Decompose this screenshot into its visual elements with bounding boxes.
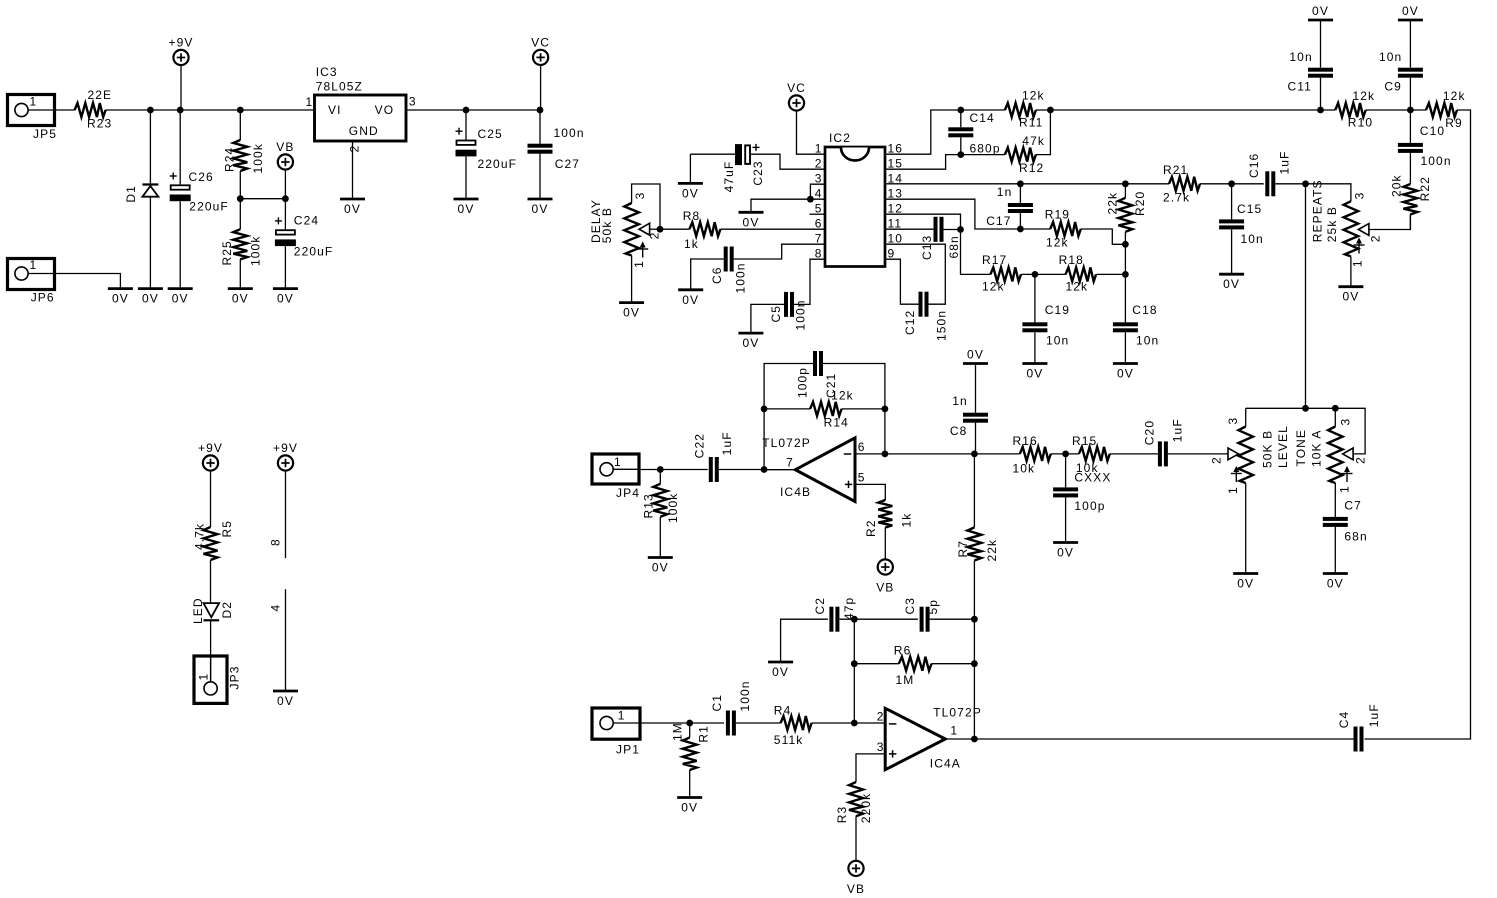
- svg-text:12k: 12k: [1046, 236, 1069, 250]
- svg-text:1: 1: [197, 673, 211, 681]
- svg-text:12k: 12k: [1353, 89, 1376, 103]
- svg-text:R10: R10: [1348, 116, 1373, 130]
- pin numbers 1-8: [815, 142, 823, 261]
- capacitor C21: [796, 351, 885, 409]
- resistor R12: [1005, 134, 1045, 175]
- svg-text:0V: 0V: [772, 665, 789, 679]
- svg-text:+9V: +9V: [273, 441, 298, 455]
- wire pin 13: [885, 199, 1050, 229]
- wire: [1036, 110, 1051, 155]
- wire riser: [973, 619, 975, 739]
- wire: [1200, 183, 1264, 185]
- node: [147, 107, 154, 114]
- svg-text:0V: 0V: [1237, 577, 1254, 591]
- node: [657, 466, 664, 473]
- svg-text:0V: 0V: [681, 801, 698, 815]
- resistor R18: [1059, 253, 1097, 294]
- resistor R10: [1335, 89, 1375, 130]
- svg-text:100p: 100p: [796, 367, 810, 398]
- ground: [738, 333, 763, 350]
- resistor R4: [774, 704, 885, 748]
- capacitor C11: [1288, 4, 1334, 110]
- svg-text:3: 3: [1352, 192, 1366, 200]
- svg-text:100n: 100n: [1421, 154, 1452, 168]
- svg-text:C3: C3: [903, 597, 917, 615]
- svg-text:C22: C22: [693, 433, 707, 458]
- ground: [138, 289, 163, 306]
- svg-text:IC4A: IC4A: [930, 757, 961, 771]
- capacitor C6: [691, 244, 825, 293]
- resistor R6: [854, 644, 974, 688]
- capacitor C20: [1143, 418, 1228, 466]
- svg-text:VI: VI: [328, 103, 342, 117]
- svg-text:1: 1: [306, 95, 314, 109]
- wire: [1036, 109, 1335, 111]
- svg-text:R16: R16: [1013, 434, 1038, 448]
- svg-text:R9: R9: [1445, 116, 1463, 130]
- svg-text:3: 3: [1226, 417, 1240, 425]
- svg-text:2: 2: [877, 710, 885, 724]
- node: [807, 196, 814, 203]
- svg-text:R15: R15: [1072, 434, 1097, 448]
- svg-text:C6: C6: [710, 266, 724, 284]
- svg-text:TL072P: TL072P: [933, 706, 982, 720]
- svg-text:220k: 220k: [859, 793, 873, 823]
- svg-text:0V: 0V: [112, 292, 129, 306]
- svg-text:R25: R25: [220, 240, 234, 265]
- svg-text:0V: 0V: [743, 215, 760, 229]
- svg-text:0V: 0V: [1057, 546, 1074, 560]
- svg-text:100k: 100k: [251, 143, 265, 173]
- svg-text:10k: 10k: [1013, 462, 1036, 476]
- svg-text:1n: 1n: [997, 185, 1013, 199]
- svg-text:0V: 0V: [277, 694, 294, 708]
- node: [1122, 271, 1129, 278]
- wire: [210, 620, 212, 682]
- svg-text:R21: R21: [1163, 163, 1188, 177]
- supply VC: [531, 36, 550, 65]
- svg-text:0V: 0V: [172, 292, 189, 306]
- svg-text:10n: 10n: [1136, 334, 1159, 348]
- wire pin 4 stub: [269, 589, 286, 691]
- supply +9V: [273, 441, 298, 470]
- svg-text:2: 2: [1210, 456, 1224, 464]
- regulator IC3: [306, 65, 417, 153]
- svg-text:R6: R6: [894, 644, 912, 658]
- svg-text:12k: 12k: [1443, 89, 1466, 103]
- svg-text:D1: D1: [124, 185, 138, 203]
- svg-text:22k: 22k: [1106, 192, 1120, 215]
- potentiometer TONE: [1294, 408, 1367, 517]
- svg-text:R24: R24: [223, 147, 237, 172]
- svg-text:2: 2: [1368, 234, 1382, 242]
- connector JP3: [194, 656, 242, 703]
- svg-text:TL072P: TL072P: [762, 436, 811, 450]
- node: [957, 151, 964, 158]
- wire pin 6: [855, 453, 974, 455]
- wire: [55, 274, 121, 289]
- resistor R20: [1106, 184, 1148, 275]
- capacitor C24: [275, 199, 333, 289]
- capacitor C15: [1219, 184, 1264, 274]
- svg-text:1: 1: [30, 95, 38, 109]
- svg-text:+9V: +9V: [198, 441, 223, 455]
- capacitor C18: [1113, 274, 1159, 363]
- capacitor C10: [1398, 110, 1452, 184]
- svg-text:0V: 0V: [458, 202, 475, 216]
- svg-text:R5: R5: [220, 520, 234, 538]
- capacitor C13: [885, 217, 961, 260]
- wire pin 12: [885, 214, 961, 229]
- svg-text:JP5: JP5: [33, 127, 57, 141]
- node: [1332, 405, 1339, 412]
- svg-text:10n: 10n: [1241, 232, 1264, 246]
- capacitor C14: [948, 110, 1000, 155]
- capacitor C4: [1337, 703, 1381, 751]
- svg-text:R17: R17: [982, 253, 1007, 267]
- svg-text:C10: C10: [1420, 124, 1445, 138]
- svg-text:0V: 0V: [742, 336, 759, 350]
- wire feedback: [764, 364, 813, 470]
- svg-text:1: 1: [1351, 259, 1365, 267]
- capacitor C25: [456, 110, 518, 199]
- node: [1302, 180, 1309, 187]
- svg-text:1: 1: [30, 258, 38, 272]
- wire riser: [853, 619, 855, 723]
- resistor R24: [223, 110, 265, 199]
- op-amp IC4B: [762, 436, 865, 502]
- resistor R11: [1005, 89, 1045, 130]
- wire pin 8 stub: [269, 471, 286, 559]
- svg-text:220uF: 220uF: [189, 200, 229, 214]
- node: [882, 451, 889, 458]
- wire: [1051, 453, 1079, 455]
- resistor R19: [1045, 208, 1081, 250]
- resistor R22: [1390, 174, 1433, 229]
- ground: [1338, 287, 1363, 304]
- svg-text:3: 3: [409, 95, 417, 109]
- svg-text:0V: 0V: [967, 348, 984, 362]
- wire: [1021, 273, 1066, 275]
- node: [686, 720, 693, 727]
- capacitor C5: [751, 259, 825, 333]
- svg-text:78L05Z: 78L05Z: [316, 80, 363, 94]
- ground: [340, 199, 365, 216]
- svg-text:R13: R13: [642, 493, 656, 518]
- svg-text:IC3: IC3: [316, 65, 338, 79]
- wire: [406, 109, 540, 111]
- svg-text:JP3: JP3: [228, 666, 242, 690]
- node: [537, 107, 544, 114]
- wire pin 1: [797, 111, 826, 155]
- potentiometer LEVEL: [1210, 408, 1290, 573]
- svg-text:5: 5: [858, 471, 866, 485]
- node: [1047, 107, 1054, 114]
- ground: [1323, 574, 1348, 591]
- connector JP5: [8, 95, 57, 142]
- svg-text:12k: 12k: [982, 280, 1005, 294]
- svg-text:1: 1: [618, 709, 626, 723]
- svg-text:20k: 20k: [1390, 174, 1404, 197]
- svg-text:10K A: 10K A: [1309, 429, 1323, 467]
- resistor R1: [671, 722, 711, 797]
- svg-text:VO: VO: [375, 103, 395, 117]
- potentiometer DELAY: [589, 184, 661, 303]
- connector JP1: [592, 708, 640, 757]
- connector JP4: [592, 454, 640, 500]
- wire: [1110, 453, 1158, 455]
- resistor R25: [220, 199, 262, 289]
- svg-text:R7: R7: [956, 540, 970, 558]
- resistor R16: [1013, 434, 1051, 476]
- svg-text:100n: 100n: [554, 126, 585, 140]
- svg-text:2: 2: [647, 232, 661, 240]
- svg-text:IC2: IC2: [829, 131, 851, 145]
- svg-text:2: 2: [348, 145, 362, 153]
- svg-text:10n: 10n: [1289, 50, 1312, 64]
- svg-text:50K B: 50K B: [1260, 430, 1274, 468]
- svg-text:0V: 0V: [652, 561, 669, 575]
- svg-text:C26: C26: [189, 170, 214, 184]
- wire pin 1: [945, 738, 1353, 740]
- svg-text:47k: 47k: [1022, 134, 1045, 148]
- connector JP6: [8, 258, 55, 305]
- node: [1317, 107, 1324, 114]
- svg-text:R19: R19: [1045, 208, 1070, 222]
- wire: [240, 198, 285, 200]
- svg-text:R18: R18: [1059, 253, 1084, 267]
- resistor R21: [1163, 163, 1200, 205]
- wire: [180, 65, 182, 110]
- svg-text:JP6: JP6: [31, 291, 55, 305]
- wire pin 14 rail: [885, 183, 1169, 185]
- svg-text:1n: 1n: [952, 394, 968, 408]
- svg-text:LEVEL: LEVEL: [1276, 425, 1290, 468]
- svg-text:C17: C17: [986, 214, 1011, 228]
- svg-text:1uF: 1uF: [1367, 703, 1381, 727]
- svg-text:VB: VB: [276, 140, 294, 154]
- svg-text:C5: C5: [769, 305, 783, 323]
- wire pin 5 stub: [810, 213, 826, 215]
- resistor R15: [1072, 434, 1111, 485]
- node: [1017, 226, 1024, 233]
- node: [971, 736, 978, 743]
- node: [1062, 451, 1069, 458]
- ground: [677, 798, 702, 815]
- wire right bus: [1365, 110, 1471, 739]
- resistor R5: [193, 471, 235, 603]
- node: [957, 107, 964, 114]
- svg-text:VB: VB: [876, 581, 894, 595]
- svg-text:R11: R11: [1019, 116, 1043, 130]
- svg-text:7: 7: [786, 456, 794, 470]
- svg-text:C23: C23: [751, 160, 765, 185]
- svg-text:R3: R3: [835, 806, 849, 824]
- capacitor C22: [693, 431, 764, 482]
- svg-text:1: 1: [1338, 485, 1352, 493]
- svg-text:1uF: 1uF: [720, 431, 734, 455]
- supply +9V: [198, 441, 223, 470]
- node: [1302, 405, 1309, 412]
- ground: [108, 289, 133, 306]
- capacitor C23: [690, 144, 825, 193]
- resistor R7: [956, 454, 999, 619]
- node: [1017, 180, 1024, 187]
- node: [1228, 180, 1235, 187]
- wire bus: [1305, 184, 1307, 408]
- svg-text:C25: C25: [478, 127, 503, 141]
- ground: [619, 303, 644, 320]
- diode D1: [124, 110, 158, 289]
- wire: [540, 65, 542, 110]
- svg-text:C8: C8: [950, 424, 968, 438]
- ground: [528, 199, 553, 216]
- ground: [768, 662, 793, 679]
- wire: [284, 170, 286, 199]
- supply VC: [787, 81, 806, 110]
- svg-text:150n: 150n: [934, 310, 948, 341]
- node: [237, 107, 244, 114]
- svg-text:3: 3: [1338, 418, 1352, 426]
- wire pin 16: [885, 110, 961, 154]
- svg-text:12k: 12k: [1066, 280, 1089, 294]
- pin numbers 16-9: [888, 142, 904, 261]
- ground: [739, 212, 764, 229]
- svg-text:IC4B: IC4B: [780, 485, 811, 499]
- svg-text:C1: C1: [710, 694, 724, 712]
- node: [282, 195, 289, 202]
- wire: [1096, 273, 1125, 275]
- svg-text:0V: 0V: [344, 202, 361, 216]
- ground: [1022, 364, 1047, 381]
- wire: [352, 141, 354, 199]
- svg-text:1: 1: [1226, 486, 1240, 494]
- resistor R23: [75, 88, 113, 131]
- led D2: [191, 597, 234, 624]
- node: [1407, 107, 1414, 114]
- svg-text:C9: C9: [1384, 80, 1402, 94]
- svg-text:+9V: +9V: [169, 36, 194, 50]
- capacitor C27: [528, 110, 585, 199]
- wire: [1366, 109, 1426, 111]
- svg-text:C13: C13: [920, 235, 934, 260]
- svg-text:4.7k: 4.7k: [193, 523, 207, 550]
- svg-text:0V: 0V: [1026, 367, 1043, 381]
- capacitor CXXX: [1053, 454, 1105, 543]
- svg-text:R22: R22: [1418, 176, 1432, 201]
- svg-text:220uF: 220uF: [478, 157, 518, 171]
- svg-text:100n: 100n: [738, 680, 752, 711]
- svg-text:C24: C24: [294, 214, 319, 228]
- svg-text:22k: 22k: [985, 539, 999, 562]
- svg-text:100n: 100n: [794, 299, 808, 330]
- svg-text:D2: D2: [220, 601, 234, 619]
- svg-text:1uF: 1uF: [1278, 151, 1292, 175]
- ground: [1113, 364, 1138, 381]
- wire: [884, 409, 886, 454]
- capacitor C1: [710, 680, 780, 735]
- node: [1122, 180, 1129, 187]
- svg-text:R1: R1: [697, 725, 711, 743]
- svg-text:100p: 100p: [1074, 499, 1105, 513]
- ic IC2: [825, 131, 885, 267]
- wire pins 3 4 ground: [751, 184, 825, 212]
- svg-text:VB: VB: [847, 882, 865, 896]
- svg-text:R12: R12: [1019, 161, 1044, 175]
- svg-text:3: 3: [877, 740, 885, 754]
- svg-text:100n: 100n: [734, 262, 748, 293]
- svg-text:10n: 10n: [1379, 50, 1402, 64]
- node: [851, 660, 858, 667]
- capacitor C8: [950, 348, 988, 454]
- capacitor C9: [1379, 4, 1423, 110]
- svg-text:JP4: JP4: [616, 486, 640, 500]
- svg-text:C18: C18: [1132, 303, 1157, 317]
- svg-text:511k: 511k: [774, 733, 804, 747]
- svg-text:0V: 0V: [1327, 577, 1344, 591]
- node: [1032, 271, 1039, 278]
- svg-text:C19: C19: [1045, 303, 1070, 317]
- op-amp IC4A: [877, 706, 982, 771]
- resistor R3: [835, 754, 885, 861]
- svg-text:6: 6: [858, 440, 866, 454]
- resistor R13: [642, 470, 681, 558]
- svg-text:3: 3: [633, 192, 647, 200]
- ground: [678, 290, 703, 307]
- svg-text:2.7k: 2.7k: [1163, 191, 1190, 205]
- ground: [678, 183, 703, 200]
- svg-text:1k: 1k: [684, 237, 699, 251]
- svg-text:C12: C12: [903, 310, 917, 335]
- svg-text:4: 4: [269, 604, 283, 612]
- svg-text:12k: 12k: [1022, 89, 1045, 103]
- node: [882, 406, 889, 413]
- ground: [228, 289, 253, 306]
- svg-text:0V: 0V: [682, 186, 699, 200]
- supply VB: [876, 559, 894, 594]
- svg-text:68n: 68n: [1344, 530, 1367, 544]
- svg-text:LED: LED: [191, 597, 205, 624]
- resistor R2: [855, 484, 914, 559]
- node: [971, 451, 978, 458]
- node: [237, 195, 244, 202]
- svg-text:REPEATS: REPEATS: [1311, 179, 1325, 242]
- svg-text:0V: 0V: [1312, 4, 1329, 18]
- svg-text:1uF: 1uF: [1171, 418, 1185, 442]
- svg-text:0V: 0V: [142, 292, 159, 306]
- svg-text:25k B: 25k B: [1325, 206, 1339, 242]
- wire: [55, 109, 75, 111]
- svg-text:C7: C7: [1344, 499, 1362, 513]
- potentiometer REPEATS: [1306, 179, 1411, 286]
- ground: [648, 558, 673, 575]
- svg-text:TONE: TONE: [1294, 429, 1308, 467]
- svg-text:22E: 22E: [88, 88, 113, 102]
- ground: [168, 289, 193, 306]
- capacitor C12: [885, 244, 948, 341]
- svg-text:R2: R2: [864, 519, 878, 537]
- capacitor C2: [781, 597, 918, 662]
- svg-text:8: 8: [269, 538, 283, 546]
- svg-text:VC: VC: [787, 81, 806, 95]
- svg-text:1M: 1M: [671, 722, 685, 741]
- node: [657, 226, 664, 233]
- svg-text:0V: 0V: [277, 292, 294, 306]
- capacitor C3: [903, 597, 974, 632]
- svg-text:R14: R14: [824, 416, 849, 430]
- svg-text:5p: 5p: [926, 599, 940, 615]
- node: [851, 720, 858, 727]
